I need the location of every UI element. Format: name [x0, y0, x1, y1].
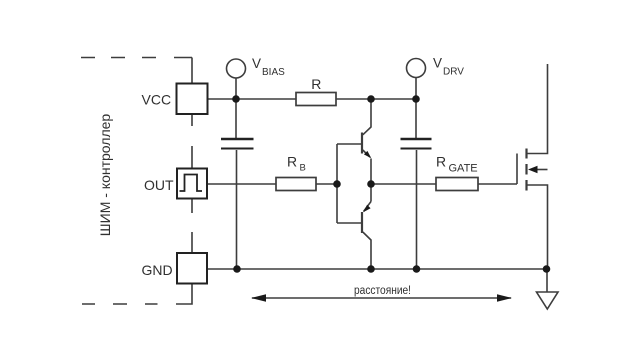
svg-text:VCC: VCC	[142, 92, 172, 108]
svg-text:GND: GND	[142, 262, 173, 278]
svg-text:V: V	[433, 56, 442, 71]
svg-text:R: R	[287, 154, 297, 170]
svg-text:B: B	[300, 163, 306, 174]
svg-text:BIAS: BIAS	[262, 67, 285, 78]
svg-text:DRV: DRV	[443, 67, 464, 78]
svg-text:R: R	[311, 76, 321, 92]
svg-text:OUT: OUT	[144, 177, 174, 193]
svg-text:расстояние!: расстояние!	[354, 285, 411, 297]
svg-text:R: R	[436, 153, 446, 169]
svg-text:ШИМ - контроллер: ШИМ - контроллер	[97, 114, 113, 237]
svg-text:V: V	[252, 56, 261, 71]
svg-text:GATE: GATE	[449, 163, 478, 175]
